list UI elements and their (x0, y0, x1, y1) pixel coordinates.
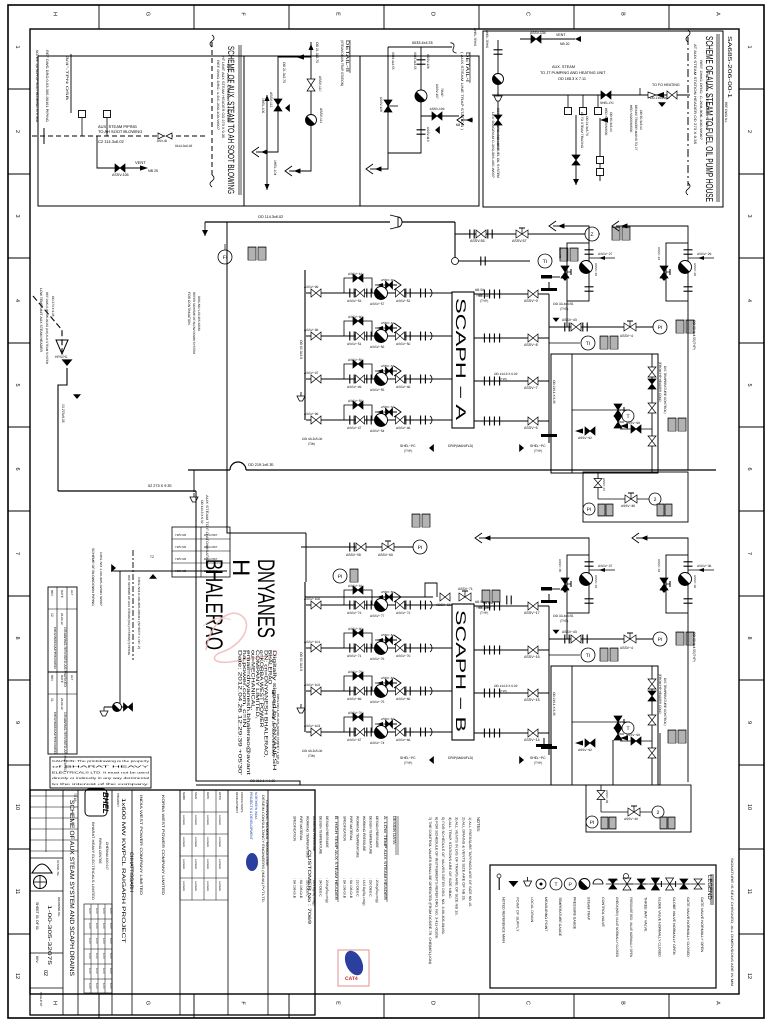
svg-text:ASSV−44: ASSV−44 (381, 321, 394, 325)
svg-text:2) ALL DRAINS & VENTS SIZE ARE: 2) ALL DRAINS & VENTS SIZE ARE OF NB 25. (461, 817, 465, 901)
svg-text:OD 21.3x3.73: OD 21.3x3.73 (585, 116, 589, 136)
steam trap ASSV−76 (375, 642, 388, 655)
svg-text:REVISED/APPROVED: REVISED/APPROVED (53, 627, 57, 670)
svg-text:E: E (335, 12, 341, 16)
svg-text:CHENNAI, MUMBAI, BANGLORE: CHENNAI, MUMBAI, BANGLORE (265, 800, 269, 866)
svg-text:26.04.12: 26.04.12 (60, 613, 64, 625)
svg-text:CONTROL VALVE: CONTROL VALVE (601, 897, 605, 928)
svg-text:D/S TEMPERATURE CONTROL): D/S TEMPERATURE CONTROL) (663, 366, 667, 414)
globe valve (651, 878, 659, 890)
small approval grid (30, 795, 78, 797)
svg-text:OD 60.3x3.14: OD 60.3x3.14 (609, 112, 613, 132)
right dash-dot aux steam station header (687, 37, 689, 186)
svg-text:A.KR: A.KR (109, 983, 112, 989)
instrument tags (560, 248, 568, 261)
valve ASSV-112 NC (274, 99, 282, 111)
svg-text:ASSV−4: ASSV−4 (620, 334, 633, 338)
svg-text:OD 219.1 X 6.35: OD 219.1 X 6.35 (552, 380, 556, 404)
svg-text:ASSV−55: ASSV−55 (370, 388, 385, 392)
point of supply (553, 318, 560, 322)
valve ASSV-43 (571, 323, 581, 331)
svg-text:ASSV−43: ASSV−43 (562, 630, 577, 634)
flange pair (583, 635, 587, 644)
flange pair (684, 287, 693, 291)
svg-text:1-00-305-32075: 1-00-305-32075 (46, 905, 52, 965)
left supply downcomer (227, 222, 306, 533)
trap ASSV−32 (679, 573, 692, 586)
stamp CAT4 (338, 948, 369, 986)
svg-text:A.KR: A.KR (88, 953, 91, 959)
svg-text:ASSV−100: ASSV−100 (304, 597, 320, 601)
gauge TI (581, 648, 595, 662)
reducer horn (390, 215, 402, 229)
bypass valve ASSV−58 (353, 401, 363, 409)
svg-text:ASSV−15: ASSV−15 (524, 698, 540, 702)
svg-text:SA685-206-00-1: SA685-206-00-1 (726, 36, 732, 98)
svg-text:7: 7 (14, 552, 20, 555)
trap bypass loop (344, 717, 372, 732)
svg-text:OD 114.3x6.02: OD 114.3x6.02 (258, 215, 283, 219)
svg-text:LOW TEMP/UNIT AUX STEAM HEADER: LOW TEMP/UNIT AUX STEAM HEADER (39, 288, 43, 353)
svg-text:DEVELOPMENT: DEVELOPMENT (235, 792, 239, 813)
trap station loop at x=567 (567, 243, 589, 301)
svg-text:ASSV−97: ASSV−97 (304, 371, 319, 375)
box B piping: vent at top (520, 38, 575, 40)
svg-text:DRG.NO.1-00-305-32081: DRG.NO.1-00-305-32081 (197, 296, 201, 332)
svg-text:DRIP(MANIFLD): DRIP(MANIFLD) (448, 756, 473, 760)
flange pair (585, 250, 594, 254)
svg-text:G: G (145, 1001, 151, 1005)
signature squiggle (206, 613, 277, 662)
valve ASSV-66 (440, 593, 450, 601)
svg-text:NB 20: NB 20 (560, 42, 570, 46)
svg-text:ASSV−4: ASSV−4 (620, 646, 633, 650)
svg-text:NAME: NAME (182, 792, 186, 800)
branch 2 of SCAPH B (306, 647, 452, 649)
svg-text:DATE: DATE (60, 675, 64, 683)
flange pair (565, 323, 569, 332)
svg-text:REF SCHEME OF AUX STEAM (OIL): REF SCHEME OF AUX STEAM (OIL) SYSTEM(?) … (127, 575, 131, 656)
flange pair (585, 562, 594, 566)
right riser OD 33.4x4.55 (687, 301, 689, 470)
svg-text:5: 5 (14, 383, 20, 386)
anchor support (541, 282, 557, 291)
valve ASSV-92 (585, 427, 595, 435)
valve (680, 879, 688, 889)
svg-text:: 20 Kg/Sq.cm(g): : 20 Kg/Sq.cm(g) (325, 878, 329, 903)
gauge PI (586, 816, 598, 828)
svg-text:0033.4x4.55: 0033.4x4.55 (413, 52, 417, 70)
valve ASSV−15 (528, 689, 538, 697)
isolation valve NC ASSV−35 (561, 578, 569, 590)
flange pair (484, 290, 489, 299)
hose connection (104, 111, 111, 118)
svg-text:ASSV−62: ASSV−62 (381, 717, 394, 721)
svg-text:ASSV−60: ASSV−60 (348, 315, 363, 319)
flange pair (494, 646, 499, 655)
instrument tags (600, 336, 608, 349)
point of supply (149, 574, 157, 579)
svg-text:6: 6 (746, 467, 752, 470)
trap vent branch (375, 370, 397, 372)
flange pair (494, 334, 499, 343)
vent fork (385, 323, 401, 333)
svg-text:OD 114.3 X 6.02: OD 114.3 X 6.02 (200, 500, 204, 524)
flange pair (565, 635, 569, 644)
svg-text:A.KR: A.KR (109, 968, 112, 974)
hose connection (79, 111, 86, 118)
svg-text:NOTES: 1)A SCH OF SOOT BLOWING: NOTES: 1)A SCH OF SOOT BLOWING SYSTEM (35, 50, 39, 122)
trap bypass loop (344, 321, 372, 336)
svg-text:OD 168.3 X 7.11: OD 168.3 X 7.11 (558, 77, 586, 81)
TI row (549, 342, 580, 344)
bypass valve ASSV−59 (353, 360, 363, 368)
svg-text:ASSV−29: ASSV−29 (697, 252, 712, 256)
svg-text:ASSV−102: ASSV−102 (304, 683, 320, 687)
svg-text:ALT: ALT (70, 675, 74, 680)
svg-text:ASSV-107: ASSV-107 (435, 84, 439, 99)
svg-text:4: 4 (746, 299, 752, 302)
collector line (548, 606, 550, 749)
anchor support (541, 594, 557, 603)
svg-text:02 273 X 9.35: 02 273 X 9.35 (148, 484, 172, 488)
point of supply (429, 756, 434, 764)
valve ASSV−8 (528, 334, 538, 342)
line break (210, 35, 214, 47)
valve (396, 332, 405, 340)
drop to drain trap cluster (119, 571, 121, 707)
line break (449, 42, 458, 54)
svg-text:SHEET 01 OF 01: SHEET 01 OF 01 (35, 902, 39, 930)
bottom boundary of piping / drain header (196, 784, 660, 786)
svg-text:A: A (715, 12, 721, 16)
drain valve (124, 703, 133, 711)
instrument tags (676, 320, 684, 333)
svg-text:ASSV−71: ASSV−71 (347, 654, 362, 658)
svg-text:REF DWG DRG: 1-DC-209-100-W007: REF DWG DRG: 1-DC-209-100-W007 (216, 60, 220, 130)
vent stack line in box A (70, 54, 72, 113)
local drain funnel (297, 392, 305, 401)
flange pair (488, 230, 492, 239)
svg-text:OD 33.4x4.55(TYP): OD 33.4x4.55(TYP) (692, 320, 696, 350)
continuation fork (252, 147, 268, 157)
hose connection (597, 169, 604, 176)
branch 4 of SCAPH A (306, 419, 452, 421)
svg-text:ASSV−56: ASSV−56 (370, 345, 385, 349)
hose connection tees (81, 118, 83, 136)
point of supply (285, 104, 290, 112)
svg-text:2: 2 (746, 130, 752, 133)
svg-text:REFER SCHEME OF BLOW DOWN SYST: REFER SCHEME OF BLOW DOWN SYSTEM (192, 292, 196, 354)
gauge PI (653, 632, 667, 646)
svg-text:THREE WAY VALVE: THREE WAY VALVE (643, 897, 647, 932)
svg-text:PI: PI (590, 820, 595, 826)
valve ASSV-58 (356, 543, 366, 551)
valve (694, 879, 702, 889)
steam trap (493, 74, 504, 85)
globe valve (614, 728, 622, 740)
hose connection (565, 108, 572, 115)
instrument tags (422, 514, 430, 527)
svg-text:PI: PI (418, 545, 423, 551)
flow indicator FI (218, 250, 232, 264)
svg-text:ASSV−7: ASSV−7 (524, 386, 538, 390)
flange pair (406, 644, 410, 653)
svg-text:VENT: VENT (135, 160, 146, 165)
svg-text:(TYP): (TYP) (534, 761, 542, 765)
anchor support (536, 738, 552, 747)
steam trap ASSV−57 (375, 287, 388, 300)
svg-text:A.KMAR: A.KMAR (218, 837, 221, 847)
trap vent branch (375, 411, 397, 413)
svg-text:ASSV-126: ASSV-126 (426, 54, 430, 69)
flange pair (684, 250, 693, 254)
local drain funnel (100, 707, 108, 716)
svg-text:REV: REV (50, 675, 54, 681)
svg-text:11: 11 (746, 889, 752, 895)
svg-text:3: 3 (746, 214, 752, 217)
flange pair at header (421, 416, 426, 425)
svg-text:A.KR: A.KR (88, 923, 91, 929)
svg-text:ELECTRICALS LTD. It must not b: ELECTRICALS LTD. It must not be used (52, 770, 150, 774)
svg-text:OD 33.4x4.55: OD 33.4x4.55 (553, 614, 574, 618)
flange pair (350, 728, 354, 737)
left trap cluster in box B (497, 40, 499, 150)
svg-text:SCHEME OF AUX STEAM SYSTEM AND: SCHEME OF AUX STEAM SYSTEM AND SCAPH DRA… (68, 800, 75, 976)
svg-text:ASSV-110: ASSV-110 (318, 76, 322, 92)
svg-text:5) FOR SCHEDULE OF VALVES REFE: 5) FOR SCHEDULE OF VALVES REFER DRG. NO.… (441, 817, 445, 935)
flange pair at header (421, 601, 426, 610)
vent valve ASSV-134 (531, 35, 541, 43)
svg-text:ASSV−34: ASSV−34 (657, 559, 661, 572)
point of supply (429, 444, 434, 452)
svg-text:SHEL-TRHS: SHEL-TRHS (485, 30, 489, 48)
svg-text:(TYP): (TYP) (404, 449, 412, 453)
svg-text:: 20 Kg/Sq.cm(g): : 20 Kg/Sq.cm(g) (375, 878, 379, 903)
svg-text:ASSV−37: ASSV−37 (598, 564, 613, 568)
svg-text:(TYP): (TYP) (480, 611, 488, 615)
title block (30, 790, 315, 1015)
valve ASSV-92 (585, 739, 595, 747)
valve ASSV−9 (528, 290, 538, 298)
svg-text:02: 02 (50, 613, 54, 617)
trap vent branch (375, 284, 397, 286)
svg-text:"AH" AUX STEAM SYSTEM: "AH" AUX STEAM SYSTEM (226, 62, 230, 123)
svg-text:OD 21.3x3.73: OD 21.3x3.73 (282, 62, 286, 83)
trap bypass loop (344, 364, 372, 379)
incoming dashed header from HP/LP source (33, 296, 62, 352)
svg-text:(TYP): (TYP) (480, 299, 488, 303)
svg-text:PROJECT: PROJECT (116, 793, 120, 807)
svg-text:12: 12 (14, 973, 20, 979)
svg-text:6) FOR SCHEDULE OF INSTRUMENTS: 6) FOR SCHEDULE OF INSTRUMENTS REFER DRG… (435, 817, 439, 939)
valve NC (601, 91, 611, 99)
svg-text:LOCAL DRAIN: LOCAL DRAIN (530, 897, 534, 923)
LEGEND box (490, 865, 716, 988)
svg-text:GATE VALVE NORMALLY OPEN: GATE VALVE NORMALLY OPEN (700, 897, 704, 953)
svg-text:ASSV−40: ASSV−40 (624, 817, 638, 821)
pressure control valve (614, 404, 622, 416)
drain valve NC (494, 115, 502, 125)
svg-text:A.KR: A.KR (88, 938, 91, 944)
trap vent branch (375, 723, 397, 725)
svg-text:REF DWG DRG: C-209-306-100-W00: REF DWG DRG: C-209-306-100-W007 (699, 60, 703, 140)
svg-text:DESEIN CONSULTANCY ENGINEERS (: DESEIN CONSULTANCY ENGINEERS (INDIA) PVT… (261, 795, 265, 903)
point of supply (519, 756, 524, 764)
svg-text:E: E (335, 1001, 341, 1005)
point of supply (561, 588, 569, 593)
vent fork (385, 678, 401, 688)
svg-text:SHEL−PC: SHEL−PC (530, 444, 546, 448)
instrument tags (622, 227, 630, 240)
valve (637, 879, 645, 889)
svg-text:A.KR: A.KR (95, 968, 98, 974)
valve (648, 715, 656, 725)
svg-text:6: 6 (14, 467, 20, 470)
svg-text:ASSV−78: ASSV−78 (348, 711, 363, 715)
svg-text:ASSV−64: ASSV−64 (381, 633, 394, 637)
flange pair (367, 416, 371, 425)
svg-text:ASSV−39: ASSV−39 (605, 790, 609, 803)
prv row pipe (455, 233, 600, 235)
svg-text:(TYP): (TYP) (404, 761, 412, 765)
valve ASSV−98 (311, 332, 321, 340)
instrument tags (668, 730, 676, 743)
svg-text:A.KR: A.KR (102, 908, 105, 914)
svg-text:A.KR: A.KR (88, 983, 91, 989)
flange pair (484, 602, 489, 611)
svg-text:H: H (52, 1001, 58, 1005)
trap station loop at x=567 (567, 555, 589, 613)
svg-text:CHENNAI-600 017: CHENNAI-600 017 (105, 842, 109, 870)
vent valve (386, 679, 393, 687)
svg-text:ASSV−71: ASSV−71 (458, 587, 473, 591)
flange pair (406, 416, 410, 425)
legend symbol: THREE WAY VALVE (634, 883, 648, 885)
left feed drop (193, 470, 195, 492)
svg-text:ASSV−101: ASSV−101 (304, 640, 320, 644)
svg-text:REVISED/APPROVED: REVISED/APPROVED (53, 712, 57, 755)
svg-text:APPD: APPD (218, 792, 222, 800)
svg-text:02: 02 (42, 970, 48, 976)
svg-text:01: 01 (50, 698, 54, 702)
svg-text:ASSV−81: ASSV−81 (348, 584, 363, 588)
svg-text:ASSV−90: ASSV−90 (626, 421, 640, 425)
svg-text:2: 2 (654, 497, 657, 503)
svg-text:ASSV−92: ASSV−92 (578, 748, 592, 752)
trap station loop at x=666 (666, 243, 688, 301)
flange pair (583, 323, 587, 332)
svg-text:T: T (626, 726, 629, 732)
svg-text:REF DWG DRG:0-03-305-09161 PIP: REF DWG DRG:0-03-305-09161 PIPING (45, 50, 49, 122)
svg-text:ASSV−38: ASSV−38 (621, 504, 635, 508)
svg-text:Z: Z (590, 232, 593, 238)
BHEL monogram (85, 789, 107, 816)
flange pair (350, 416, 354, 425)
svg-text:SCHEME OF BLOWDOWN PIPING: SCHEME OF BLOWDOWN PIPING (91, 548, 95, 607)
svg-text:1) ALL PRESSURE TAPPINGS ARE O: 1) ALL PRESSURE TAPPINGS ARE OF SIZE NB … (468, 817, 472, 907)
svg-text:ASSV−37: ASSV−37 (602, 478, 606, 491)
svg-text:OD 33.4x4.55: OD 33.4x4.55 (553, 302, 574, 306)
svg-text:TBS NO: TBS NO (175, 533, 187, 537)
svg-text:AUX STEAM TO F.O ATOMISATION: AUX STEAM TO F.O ATOMISATION (205, 495, 209, 566)
flow arrow (600, 117, 608, 122)
svg-text:A.KR: A.KR (95, 953, 98, 959)
globe valve (666, 878, 674, 890)
svg-text:10: 10 (746, 804, 752, 810)
flange pair (367, 289, 371, 298)
svg-text:ASSV−49: ASSV−49 (347, 385, 362, 389)
instrument tag (598, 504, 605, 516)
vent fork (385, 366, 401, 376)
flange pair at header (421, 728, 426, 737)
flange pair (367, 332, 371, 341)
legend symbol: GLOBE VALVE NORMALLY CLOSED (648, 883, 662, 885)
trap vent branch (375, 327, 397, 329)
steam trap ASSV−77 (375, 599, 388, 612)
svg-text:TBS NO: TBS NO (175, 545, 187, 549)
svg-text:03 273x9.35: 03 273x9.35 (61, 404, 65, 423)
svg-text:ASSV−80: ASSV−80 (348, 627, 363, 631)
dashed HT unit aux steam header line (211, 42, 213, 178)
detail box: DETAIL-I aux steam line trap station (360, 56, 479, 206)
instrument tag (482, 590, 490, 602)
legend symbol: PRESSURE RED. VALVE NORMALLY OPEN (620, 883, 634, 885)
control valve ASSV-57 (516, 230, 528, 238)
instrument tags (610, 336, 618, 349)
instrument tags (678, 730, 686, 743)
bypass valve ASSV−80 (353, 629, 363, 637)
svg-text:: 340 DEG C: : 340 DEG C (319, 878, 323, 897)
valve (648, 679, 656, 689)
svg-text:WORKING TEMPERATURE: WORKING TEMPERATURE (356, 816, 360, 858)
svg-text:1HEL-104: 1HEL-104 (273, 160, 277, 175)
svg-text:PRESSURE GAUGE: PRESSURE GAUGE (572, 897, 576, 930)
svg-text:SHEL-TRHS: SHEL-TRHS (473, 28, 477, 46)
svg-text:A.KR: A.KR (88, 908, 91, 914)
legend symbol: CHECK(NRV) VALVE NORMALLY CLOSED (606, 883, 620, 885)
steam trap ASSV−56 (375, 330, 388, 343)
svg-text:PIPE MATERIAL: PIPE MATERIAL (349, 816, 353, 841)
row 2 junction (452, 258, 459, 265)
svg-text:A.KMAR: A.KMAR (218, 859, 221, 869)
svg-text:ASSV−35: ASSV−35 (558, 559, 562, 572)
vent fork (385, 635, 401, 645)
svg-text:: SA 106 Gr.B: : SA 106 Gr.B (299, 878, 303, 899)
svg-text:TEMPERATURE GAUGE: TEMPERATURE GAUGE (558, 897, 562, 937)
PRDS side valves (651, 666, 653, 785)
outlet branches (474, 293, 549, 295)
svg-text:ASSV−99: ASSV−99 (304, 285, 319, 289)
svg-text:ASSV−45: ASSV−45 (381, 278, 394, 282)
svg-text:ASSV−27: ASSV−27 (598, 252, 613, 256)
stub with arrow (204, 222, 206, 236)
supply fork (632, 533, 648, 543)
svg-text:ASSV-56: ASSV-56 (470, 239, 485, 243)
svg-text:D: D (430, 12, 436, 16)
svg-text:5: 5 (746, 383, 752, 386)
svg-text:PI: PI (658, 637, 663, 643)
trap vent branch (375, 639, 397, 641)
hose connection (597, 157, 604, 164)
main trap leg (376, 47, 421, 169)
svg-text:A: A (715, 1001, 721, 1005)
globe ASSV-69 (382, 543, 394, 551)
svg-text:3/4"-TPN OSB: 3/4"-TPN OSB (65, 56, 69, 101)
point of supply (62, 359, 73, 366)
svg-text:POINT OF SUPPLY: POINT OF SUPPLY (516, 897, 520, 932)
flange pair (481, 257, 485, 266)
